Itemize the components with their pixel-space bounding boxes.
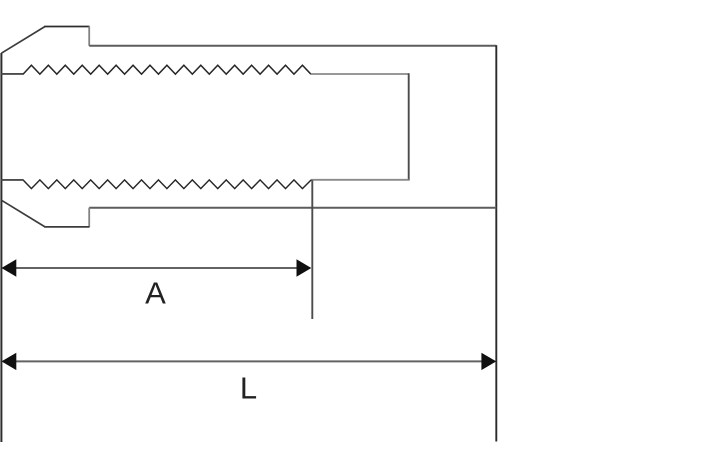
svg-text:L: L <box>240 371 257 406</box>
bottom bore lip <box>1 179 23 181</box>
dimension line A <box>3 267 310 269</box>
bottom flange edge <box>44 226 89 228</box>
bottom body edge <box>89 207 496 209</box>
svg-text:A: A <box>145 276 166 311</box>
top bore lip <box>1 73 23 75</box>
bottom flange step <box>88 208 90 227</box>
left face / left extension line <box>0 53 2 442</box>
extension line for dimension A <box>311 180 313 319</box>
arrowhead A right <box>297 259 312 276</box>
bottom chamfer <box>1 200 45 227</box>
bore end vertical <box>408 73 410 180</box>
top chamfer <box>1 27 45 54</box>
top body edge <box>89 45 496 47</box>
dimension line L <box>3 360 495 362</box>
thread zigzag top <box>23 65 311 74</box>
top flange step <box>88 27 90 46</box>
arrowhead A left <box>2 259 17 276</box>
thread zigzag bottom <box>23 180 311 189</box>
right face / right extension line <box>495 45 497 441</box>
top flange edge <box>44 26 89 28</box>
top thread root line <box>311 73 409 75</box>
arrowhead L right <box>481 353 496 370</box>
arrowhead L left <box>2 353 17 370</box>
bottom thread root line <box>311 179 409 181</box>
